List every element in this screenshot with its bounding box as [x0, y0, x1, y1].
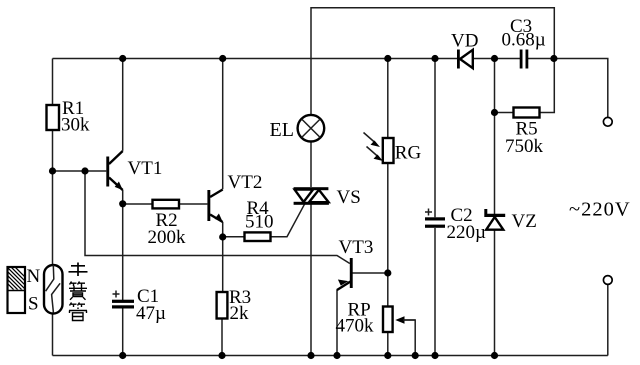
resistor R3	[217, 292, 228, 319]
resistor R2	[153, 200, 180, 209]
wire RP wiper to bottom rail	[398, 320, 416, 356]
potentiometer RP	[383, 307, 393, 333]
wire base node to reed switch	[52, 171, 54, 265]
svg-text:220µ: 220µ	[447, 222, 487, 243]
terminal lower	[603, 276, 612, 285]
wire C1 to bottom rail	[122, 309, 124, 356]
node VZ / bottom rail	[491, 352, 498, 359]
svg-text:VT2: VT2	[228, 172, 263, 193]
wire node VD-C3 down to R5	[494, 59, 496, 113]
wire emitter node to R2	[123, 203, 153, 205]
wire left rail upper (bus to R1)	[52, 59, 54, 106]
wire main horizontal bus y=58.5	[53, 58, 458, 60]
node VT3 emitter / bottom rail	[333, 352, 340, 359]
transistor VT2	[207, 190, 210, 221]
svg-text:VT3: VT3	[339, 237, 374, 258]
wire VT2 collector	[222, 59, 224, 190]
wire bus to RG	[387, 59, 389, 139]
wire RP to bottom rail	[387, 332, 389, 356]
wire VT1 emitter down to C1	[122, 204, 124, 300]
node VT3 collector / RG / RP	[384, 269, 391, 276]
wire R5 right lead up to C3 node	[540, 59, 555, 113]
wire VT1 base	[53, 170, 107, 172]
svg-text:EL: EL	[270, 119, 294, 141]
svg-text:S: S	[28, 294, 39, 315]
svg-text:200k: 200k	[148, 227, 187, 248]
node VT1 collector / bus	[119, 55, 126, 62]
wire R3 to bottom rail	[221, 319, 223, 356]
node RP wiper / bottom rail	[412, 352, 419, 359]
svg-text:N: N	[27, 266, 41, 287]
svg-text:~220V: ~220V	[569, 199, 631, 221]
wire VZ to bottom rail	[494, 231, 496, 356]
node VT1 emitter / R2 / C1	[119, 200, 126, 207]
wire RG down to VT3 collector node	[387, 163, 389, 273]
wire triac to bottom rail	[310, 205, 312, 356]
lamp EL	[298, 115, 325, 142]
svg-text:RG: RG	[395, 143, 422, 164]
node RG / bus	[384, 55, 391, 62]
wire VT1 collector	[122, 59, 124, 151]
svg-text:VD: VD	[451, 31, 478, 52]
wire R1 to base node	[52, 130, 54, 171]
resistor R5	[514, 108, 540, 118]
svg-text:0.68µ: 0.68µ	[502, 30, 546, 51]
wire bottom rail	[53, 355, 608, 357]
svg-text:VS: VS	[337, 187, 361, 208]
capacitor C1	[112, 300, 134, 303]
svg-text:2k: 2k	[230, 303, 250, 324]
photoresistor RG	[383, 138, 394, 163]
wire C3 right to terminal	[528, 59, 608, 118]
wire VT3 emitter down	[336, 290, 338, 356]
capacitor C2	[425, 217, 445, 220]
wire bus to C2	[434, 59, 436, 218]
svg-text:VT1: VT1	[128, 158, 163, 179]
node C2 / bus	[431, 55, 438, 62]
node C1 / bottom rail	[119, 352, 126, 359]
node VT2 collector / bus	[219, 55, 226, 62]
zener diode VZ	[484, 209, 505, 217]
wire R2 to VT2 base	[179, 203, 207, 205]
wire node to RP	[387, 273, 389, 307]
svg-text:47µ: 47µ	[136, 303, 166, 324]
wire right rail lower terminal to bottom rail	[607, 285, 609, 356]
svg-text:VZ: VZ	[512, 211, 537, 232]
label reed switch (hand-drawn 干簧管)	[69, 263, 88, 277]
capacitor C3	[520, 50, 523, 69]
node VS / bottom rail	[307, 352, 314, 359]
wire VT1 emitter node	[122, 190, 124, 204]
wire top rail	[311, 8, 554, 114]
triac VS	[294, 187, 329, 190]
node RP / bottom rail	[384, 352, 391, 359]
terminal upper	[603, 117, 612, 126]
resistor R4	[245, 232, 271, 241]
wire VT2 emitter node to R4	[223, 236, 245, 238]
wire VT3 collector	[353, 272, 388, 274]
transistor VT3	[350, 258, 353, 288]
svg-text:510: 510	[245, 212, 274, 233]
wire VT2 node down to R3	[222, 237, 224, 292]
svg-text:30k: 30k	[61, 115, 90, 136]
transistor VT1	[106, 157, 109, 187]
wire R4 to triac gate	[271, 203, 306, 236]
magnet bar N/S	[0, 266, 41, 315]
wire R5 left lead	[495, 112, 514, 114]
node VT1 base / feedback wire	[81, 167, 88, 174]
svg-text:470k: 470k	[336, 316, 375, 337]
wire reed switch to bottom rail	[52, 314, 54, 356]
node C2 / bottom rail	[431, 352, 438, 359]
wire feedback to VT3 base	[85, 171, 350, 264]
node VD-C3 junction	[491, 55, 498, 62]
wire VD to C3 segment	[474, 58, 521, 60]
wire EL to triac	[310, 142, 312, 187]
node R5 left / VZ	[491, 109, 498, 116]
svg-text:750k: 750k	[505, 136, 544, 157]
node left rail / VT1 base wire	[49, 167, 56, 174]
node VT2 emitter / R4 / R3	[219, 233, 226, 240]
resistor R1	[47, 105, 60, 130]
wire VT2 emitter node	[222, 222, 224, 237]
reed switch	[44, 265, 63, 314]
diode VD	[457, 50, 460, 69]
node C3-R5-top rail junction	[550, 55, 557, 62]
node R3 / bottom rail	[218, 352, 225, 359]
wire R5 node down to VZ	[494, 113, 496, 215]
wire C2 to bottom rail	[434, 228, 436, 356]
